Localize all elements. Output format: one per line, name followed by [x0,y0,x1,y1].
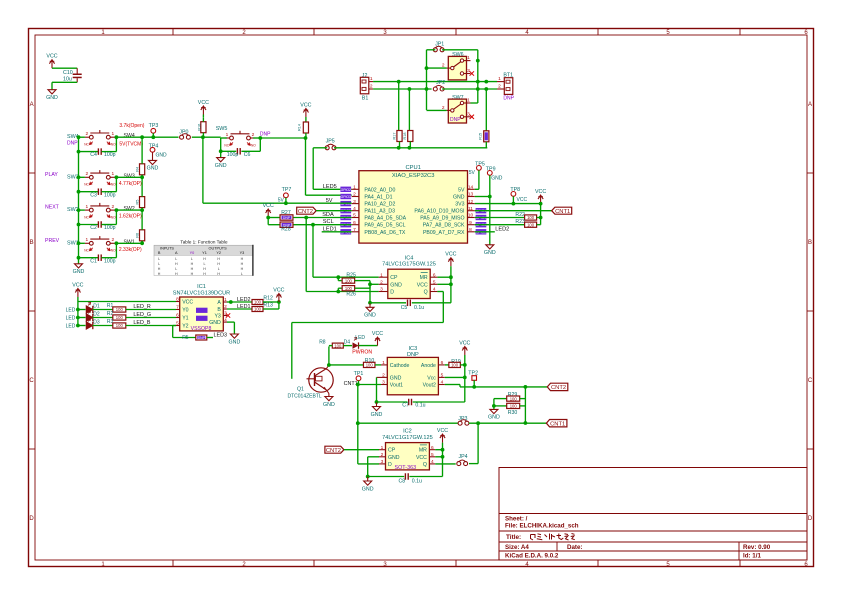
wire Vout1 drop [357,385,359,464]
wire 5V row to CPU [286,202,352,204]
svg-text:100p: 100p [104,152,116,158]
svg-text:R30: R30 [508,410,518,416]
svg-text:C: C [808,378,813,384]
ground Q1 [323,394,335,408]
svg-text:D: D [388,462,392,468]
wire [469,422,547,424]
jumper JP1 [433,41,444,52]
op-amp IC1 SN74LVC1G139DCUR [173,284,230,332]
wire LED5 net [312,148,314,190]
svg-text:H: H [191,272,194,276]
svg-text:LED: LED [355,335,365,341]
resistor R30 [492,399,525,416]
svg-text:SN74LVC1G139DCUR: SN74LVC1G139DCUR [173,290,230,296]
svg-text:Q: Q [423,462,427,468]
resistor R8 [319,339,343,348]
svg-text:SW5: SW5 [216,126,228,132]
node CNT2 input IC2 [325,446,344,453]
resistor R10 [329,358,381,368]
transistor Q1 DTC014ZEBTL [288,365,334,400]
switch SW3 [67,170,142,187]
svg-text:DNP: DNP [67,141,78,147]
wire button row [116,136,178,138]
svg-text:Size: A4: Size: A4 [505,544,529,551]
wire VCC column IC3 [464,355,466,402]
svg-text:PA02_A0_D0: PA02_A0_D0 [364,187,395,193]
resistor R16 pull-up [198,100,210,137]
svg-text:1: 1 [111,171,114,177]
svg-text:1: 1 [380,272,383,278]
ground below SW1 [73,258,85,275]
svg-text:NC: NC [84,249,89,253]
wire R29/R30 column [524,387,526,423]
power flag VCC top-left [46,54,57,68]
svg-text:NC: NC [84,143,89,147]
svg-text:R26: R26 [346,292,356,298]
switch SW2 [67,203,142,220]
svg-text:4: 4 [224,317,227,323]
svg-text:CNT1: CNT1 [344,381,358,387]
no-connect Y3 [226,313,230,317]
svg-text:5V: 5V [469,170,476,176]
svg-text:NC: NC [84,183,89,187]
svg-text:KiCad E.D.A. 9.0.2: KiCad E.D.A. 9.0.2 [505,553,559,560]
wire Q to JP4 [435,463,456,465]
svg-text:R16: R16 [198,124,202,131]
svg-text:GND: GND [73,269,85,275]
resistor R1 [93,303,177,312]
svg-text:R8: R8 [319,339,326,345]
svg-text:R15: R15 [479,133,483,140]
svg-text:9: 9 [469,220,472,226]
svg-text:PREV: PREV [45,238,60,244]
svg-text:D: D [808,516,813,522]
wire collector node [327,363,331,367]
wire GND pin13 [475,196,490,198]
op-amp IC2 74LVC1G17GW.125 [379,429,435,471]
svg-text:CNT2: CNT2 [551,385,566,391]
ground CPU [484,245,496,256]
test point TP2 [468,370,478,387]
wire [79,242,85,244]
svg-text:7: 7 [176,305,179,311]
svg-text:VCC: VCC [182,300,193,306]
node CNT1 bottom [546,420,567,427]
capacitor C5 [370,300,451,311]
svg-text:XIAO_ESP32C3: XIAO_ESP32C3 [392,173,435,179]
power flag VCC IC4 [445,252,456,267]
svg-text:D3: D3 [93,319,100,325]
svg-text:PA11_A3_D3: PA11_A3_D3 [364,209,395,215]
ground IC2 [362,477,374,493]
svg-text:C8: C8 [399,479,406,485]
svg-text:GND: GND [323,402,335,408]
power flag VCC near R27 [263,203,274,218]
resistor R29 [494,392,526,401]
wire J2 pin1 row [373,81,478,83]
wire [79,176,85,178]
svg-text:100p: 100p [104,258,116,264]
title block [499,468,807,561]
svg-text:1: 1 [111,131,114,137]
svg-text:100p: 100p [227,152,239,158]
svg-text:100: 100 [510,396,518,401]
svg-text:5V(TVCM): 5V(TVCM) [119,142,143,148]
svg-text:0.1u: 0.1u [415,402,425,408]
svg-text:3V3: 3V3 [455,202,464,208]
svg-text:74LVC1G17GW.125: 74LVC1G17GW.125 [382,435,433,441]
svg-text:5V: 5V [458,187,465,193]
svg-text:1: 1 [224,297,227,303]
wire SDA drop [305,218,307,292]
svg-text:JP5: JP5 [326,139,335,145]
svg-text:2: 2 [381,452,384,458]
svg-text:VCC: VCC [46,54,57,60]
svg-text:C10: C10 [63,70,73,76]
jumper JP0 [179,129,190,139]
svg-text:PLAY: PLAY [45,172,58,178]
resistor R23 [475,219,541,227]
svg-text:Vcc: Vcc [427,375,436,381]
svg-text:MR: MR [420,275,428,281]
svg-text:OUTPUTS: OUTPUTS [209,246,228,250]
wire GND pin2 IC4 [370,283,379,285]
svg-text:H: H [191,262,194,266]
wire VCC rail [540,204,542,225]
capacitor C2 [79,210,117,231]
svg-text:100: 100 [116,323,124,328]
svg-text:5: 5 [431,452,434,458]
svg-text:B: B [808,240,812,246]
svg-text:PWRON: PWRON [352,350,372,356]
svg-text:Title:: Title: [506,534,521,541]
jumper JP5 [325,139,336,150]
resistor R18 [403,89,413,148]
ground SW5 [215,151,227,169]
svg-text:LED5: LED5 [323,184,337,190]
svg-text:R4: R4 [136,167,140,172]
jumper JP3 [458,416,469,425]
svg-text:Y2: Y2 [182,324,188,330]
capacitor C6 [221,136,262,158]
svg-text:A: A [217,300,221,306]
power flag VCC IC2 [437,428,448,443]
svg-text:H: H [217,272,220,276]
resistor R3 [93,319,177,328]
wire [344,449,379,451]
wire JP1 right [442,49,478,51]
wire SCL row [293,224,352,226]
svg-text:H: H [175,272,178,276]
svg-text:GND: GND [215,163,227,169]
svg-text:PA8_A4_D5_SDA: PA8_A4_D5_SDA [364,216,406,222]
svg-text:A: A [175,251,178,255]
svg-text:3: 3 [382,380,385,386]
svg-text:10: 10 [468,213,474,219]
svg-text:H: H [241,257,244,261]
svg-text:8: 8 [469,227,472,233]
svg-text:H: H [241,262,244,266]
svg-text:Id: 1/1: Id: 1/1 [743,553,761,560]
resistor R4 [136,137,145,177]
svg-text:Y1: Y1 [202,251,207,255]
svg-text:VSSOP8: VSSOP8 [191,326,212,332]
svg-text:Q: Q [424,290,428,296]
svg-text:R28: R28 [281,226,291,232]
svg-text:3: 3 [381,459,384,465]
svg-text:CNT2: CNT2 [326,448,341,454]
svg-text:LED_B: LED_B [133,320,150,326]
test point TP7 [278,187,292,203]
wire left bus [78,137,80,258]
battery connector BT1 [497,73,515,102]
svg-text:Cathode: Cathode [390,363,410,369]
svg-text:MR: MR [419,448,427,454]
svg-text:D: D [29,516,34,522]
wire Vout1 [358,384,381,386]
svg-text:100: 100 [334,343,342,348]
svg-text:C2: C2 [90,225,97,231]
wire SCL drop [312,225,314,278]
capacitor C4 [79,137,117,158]
svg-text:B: B [30,240,34,246]
svg-text:4: 4 [441,380,444,386]
svg-text:VCC: VCC [300,103,311,109]
LED D4 [343,335,377,355]
ground GND top-left [46,90,58,101]
svg-text:5: 5 [441,373,444,379]
resistor R15 [479,89,489,148]
svg-text:NO: NO [111,249,116,253]
svg-text:Vout2: Vout2 [423,383,436,389]
resistor R12 [231,295,281,304]
wire JP4 up [469,463,478,465]
svg-text:NO: NO [251,143,256,147]
svg-text:VCC: VCC [372,331,383,337]
resistor R27 [266,210,293,220]
svg-text:100: 100 [345,278,353,283]
svg-text:H: H [191,267,194,271]
svg-text:D: D [390,290,394,296]
wire Vout2 to CNT2 [445,384,460,386]
svg-text:A: A [30,102,34,108]
wire JP1 left [427,49,436,51]
svg-text:GND: GND [46,95,58,101]
svg-text:VCC: VCC [273,288,284,294]
svg-text:L: L [175,267,177,271]
svg-text:R5: R5 [136,200,140,205]
svg-text:L: L [204,262,206,266]
node CNT1 right of CPU [552,207,572,214]
wire [79,209,85,211]
svg-text:VCC: VCC [459,341,470,347]
svg-text:100: 100 [116,315,124,320]
svg-text:GND: GND [390,375,402,381]
svg-text:B1: B1 [362,96,369,102]
wire SW7 pin1 [471,102,478,104]
power flag VCC D4 [372,331,383,346]
svg-text:C3: C3 [90,192,97,198]
svg-text:GPIO3: GPIO3 [341,195,351,199]
svg-text:GND: GND [147,166,159,172]
svg-text:H: H [217,262,220,266]
svg-text:1: 1 [370,76,373,82]
svg-text:Y3: Y3 [214,314,220,320]
jumper JP2 [433,80,445,91]
svg-text:1: 1 [353,185,356,191]
svg-text:R14: R14 [297,124,301,131]
node CNT2 at pin4 [297,207,317,214]
svg-text:C6: C6 [244,152,251,158]
svg-text:14: 14 [468,185,474,191]
svg-text:VCC: VCC [416,455,427,461]
svg-text:LED3: LED3 [214,333,228,339]
svg-text:GND: GND [390,282,402,288]
svg-text:D2: D2 [93,311,100,317]
wire SDA row [293,217,352,219]
svg-text:6: 6 [176,313,179,319]
svg-text:H: H [203,257,206,261]
ground IC3 [371,377,383,417]
svg-text:Date:: Date: [567,544,582,551]
svg-text:PA10_A2_D2: PA10_A2_D2 [364,202,395,208]
svg-text:VCC: VCC [437,428,448,434]
wire CNT1 row [356,421,360,425]
svg-text:12: 12 [468,199,474,205]
svg-text:13: 13 [468,192,474,198]
wire VCC bus [77,297,79,326]
switch SW5 [216,126,271,147]
svg-text:4: 4 [433,287,436,293]
wire SW7 pin2 [427,109,447,111]
svg-text:H: H [158,272,161,276]
svg-text:CNT1: CNT1 [550,421,565,427]
switch SW6 [442,52,474,80]
op-amp IC3 DNP [381,346,445,395]
svg-text:2: 2 [498,84,501,90]
svg-text:VCC: VCC [263,203,274,209]
svg-text:2: 2 [382,373,385,379]
wire [52,67,77,69]
svg-text:C4: C4 [90,152,97,158]
svg-text:H: H [203,267,206,271]
svg-text:5: 5 [353,213,356,219]
resistor R22 [475,212,541,220]
svg-text:CP: CP [388,448,396,454]
wire GND pin2 IC2 [368,456,379,458]
svg-text:1: 1 [85,237,88,243]
resistor R6 [136,210,145,243]
svg-text:1: 1 [467,98,470,104]
node CNT2 output [547,383,568,390]
svg-text:R6: R6 [136,233,140,238]
svg-text:GND: GND [362,486,374,492]
jumper JP4 [457,454,468,465]
ground IC4 [364,303,376,319]
wire BT1 row1 [478,81,497,83]
svg-text:3: 3 [353,199,356,205]
svg-text:DNP: DNP [198,336,206,340]
wire [316,210,352,212]
svg-text:SW4: SW4 [124,133,135,139]
svg-text:R13: R13 [263,302,273,308]
svg-text:GND: GND [364,313,376,319]
svg-text:100: 100 [527,215,535,220]
svg-text:5V: 5V [278,198,285,204]
svg-text:Q1: Q1 [297,386,304,392]
svg-text:1: 1 [382,360,385,366]
connector J2 [360,73,373,102]
op-amp IC4 74LVC1G175GW.125 [379,255,438,298]
svg-text:R5: R5 [182,335,189,341]
op-amp CPU1 XIAO_ESP32C3 [340,165,486,243]
svg-text:GND: GND [453,195,465,201]
svg-text:LED: LED [66,316,76,322]
svg-text:6: 6 [433,272,436,278]
svg-text:VCC: VCC [517,197,528,203]
svg-text:2: 2 [111,237,114,243]
svg-text:VCC: VCC [72,283,83,289]
wire drop to 5V row [202,137,204,203]
svg-text:0.1u: 0.1u [414,305,424,311]
ground IC1 [227,322,240,345]
svg-text:LED: LED [66,324,76,330]
power flag VCC IC3 [459,341,470,356]
svg-text:R17: R17 [392,133,396,140]
power flag VCC right of CPU [535,189,546,204]
svg-text:NO: NO [111,143,116,147]
svg-text:PB08_A6_D6_TX: PB08_A6_D6_TX [364,230,405,236]
wire pin11 to CNT1 [475,210,552,212]
svg-text:PA9_A5_D5_SCL: PA9_A5_D5_SCL [364,223,405,229]
svg-text:100p: 100p [104,192,116,198]
svg-text:Y2: Y2 [216,251,221,255]
svg-text:LED_R: LED_R [133,304,150,310]
capacitor C8 [368,473,443,484]
svg-text:VCC: VCC [198,100,209,106]
capacitor C7 [377,399,465,409]
svg-text:1: 1 [226,132,229,138]
svg-text:SW2: SW2 [124,206,135,212]
svg-text:0.1u: 0.1u [412,479,422,485]
svg-text:LED_G: LED_G [133,312,151,318]
switch SW4 [67,123,145,148]
svg-text:1: 1 [498,76,501,82]
svg-text:C: C [29,378,34,384]
wire J2 pin2 row [373,88,432,90]
svg-text:LED: LED [66,308,76,314]
wire JP2 row [442,88,497,90]
svg-text:4: 4 [353,206,356,212]
svg-text:DNP: DNP [283,216,291,220]
svg-text:L: L [158,257,160,261]
svg-text:2: 2 [252,132,255,138]
LED D1 [66,302,100,313]
svg-text:11: 11 [468,206,473,212]
svg-text:H: H [175,262,178,266]
svg-text:Anode: Anode [421,363,436,369]
svg-text:SOT-363: SOT-363 [395,465,417,471]
svg-text:GND: GND [229,339,241,345]
svg-text:PA7_A8_D8_SCK: PA7_A8_D8_SCK [423,223,465,229]
svg-text:3: 3 [467,111,470,117]
svg-text:6: 6 [441,360,444,366]
wire [192,136,221,138]
svg-text:NO: NO [111,183,116,187]
wire pin A to LED2 [227,301,231,303]
svg-text:2: 2 [111,204,114,210]
test point TP9 [486,166,503,196]
